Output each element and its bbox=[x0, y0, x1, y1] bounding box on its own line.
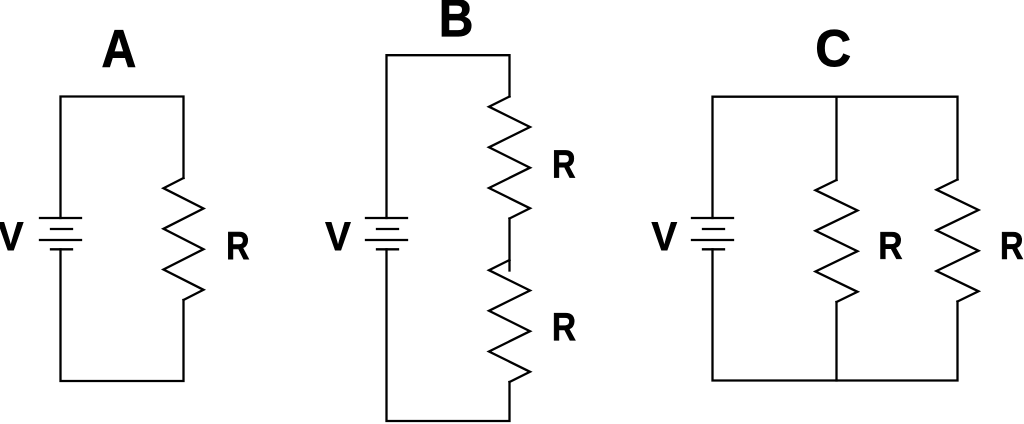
battery V1 (circuit A) bbox=[40, 218, 81, 249]
wire bottom (circuit A) bbox=[61, 249, 184, 381]
resistor R left branch (circuit C) bbox=[816, 180, 858, 302]
circuit A label bbox=[103, 30, 135, 67]
wire middle branch bottom (circuit C) bbox=[835, 302, 837, 381]
label R (circuit B lower resistor) bbox=[554, 313, 575, 340]
wire between resistors (circuit B) bbox=[508, 219, 510, 271]
label R (circuit A resistor) bbox=[228, 232, 249, 259]
label R (circuit C right resistor) bbox=[1002, 232, 1023, 259]
label V (circuit C battery) bbox=[652, 222, 677, 250]
resistor R (circuit A) bbox=[164, 178, 204, 300]
circuit B label bbox=[442, 0, 471, 36]
label V (circuit A battery) bbox=[0, 222, 23, 250]
wire bottom (circuit C) bbox=[713, 249, 958, 380]
wire top (circuit A) bbox=[61, 97, 184, 219]
wire middle branch top (circuit C) bbox=[835, 97, 837, 180]
wire bottom (circuit B) bbox=[387, 249, 510, 421]
circuit C label bbox=[817, 30, 849, 67]
wire top (circuit C) bbox=[713, 97, 958, 218]
resistor R lower (circuit B) bbox=[489, 260, 530, 382]
label R (circuit C left resistor) bbox=[881, 232, 902, 259]
battery V2 (circuit B) bbox=[366, 218, 407, 249]
wire top (circuit B) bbox=[387, 55, 510, 218]
label R (circuit B upper resistor) bbox=[554, 150, 575, 177]
resistor R upper (circuit B) bbox=[489, 97, 530, 219]
resistor R right branch (circuit C) bbox=[937, 180, 979, 302]
battery V3 (circuit C) bbox=[692, 218, 733, 249]
label V (circuit B battery) bbox=[325, 222, 350, 250]
